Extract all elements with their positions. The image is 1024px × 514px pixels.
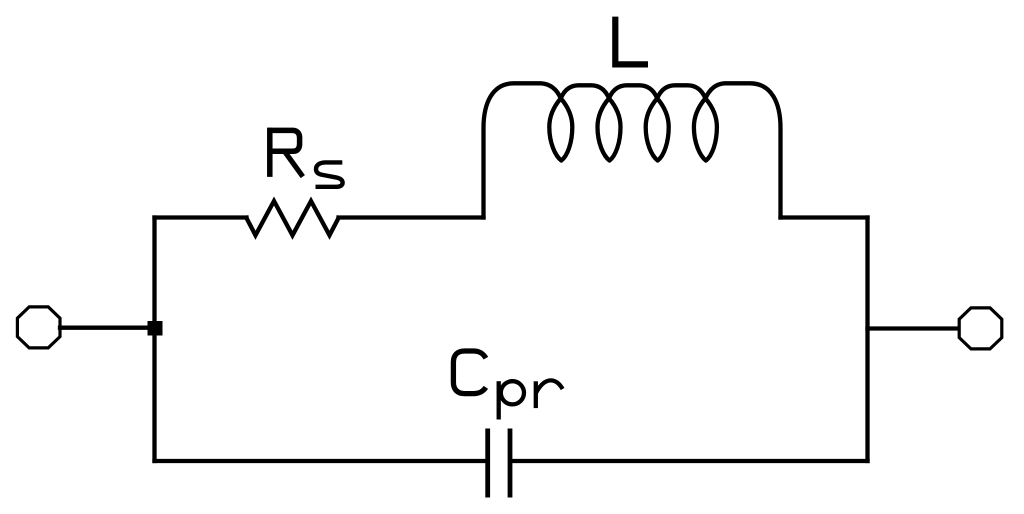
label Rs: [268, 128, 343, 187]
wire inductor to right rail: [781, 215, 868, 219]
inductor L (four cursive loops): [484, 83, 781, 217]
wire bottom-left horizontal: [155, 459, 486, 463]
wire bottom-right horizontal: [512, 459, 867, 463]
label Cpr: [453, 351, 562, 420]
wire from T1 to node A: [60, 326, 150, 330]
wire left rail vertical: [152, 218, 156, 462]
resistor Rs (zigzag): [247, 201, 339, 235]
terminal T1 (left port octagon): [17, 307, 60, 348]
wire resistor to inductor: [339, 215, 484, 219]
wire from right rail to T2: [868, 326, 959, 330]
wire right rail vertical: [865, 218, 869, 462]
label L: [615, 17, 648, 65]
wire top-left horizontal to resistor: [155, 215, 247, 219]
capacitor Cpr (two plates): [488, 429, 510, 498]
node A (junction dot): [148, 321, 163, 336]
terminal T2 (right port octagon): [959, 308, 1002, 349]
